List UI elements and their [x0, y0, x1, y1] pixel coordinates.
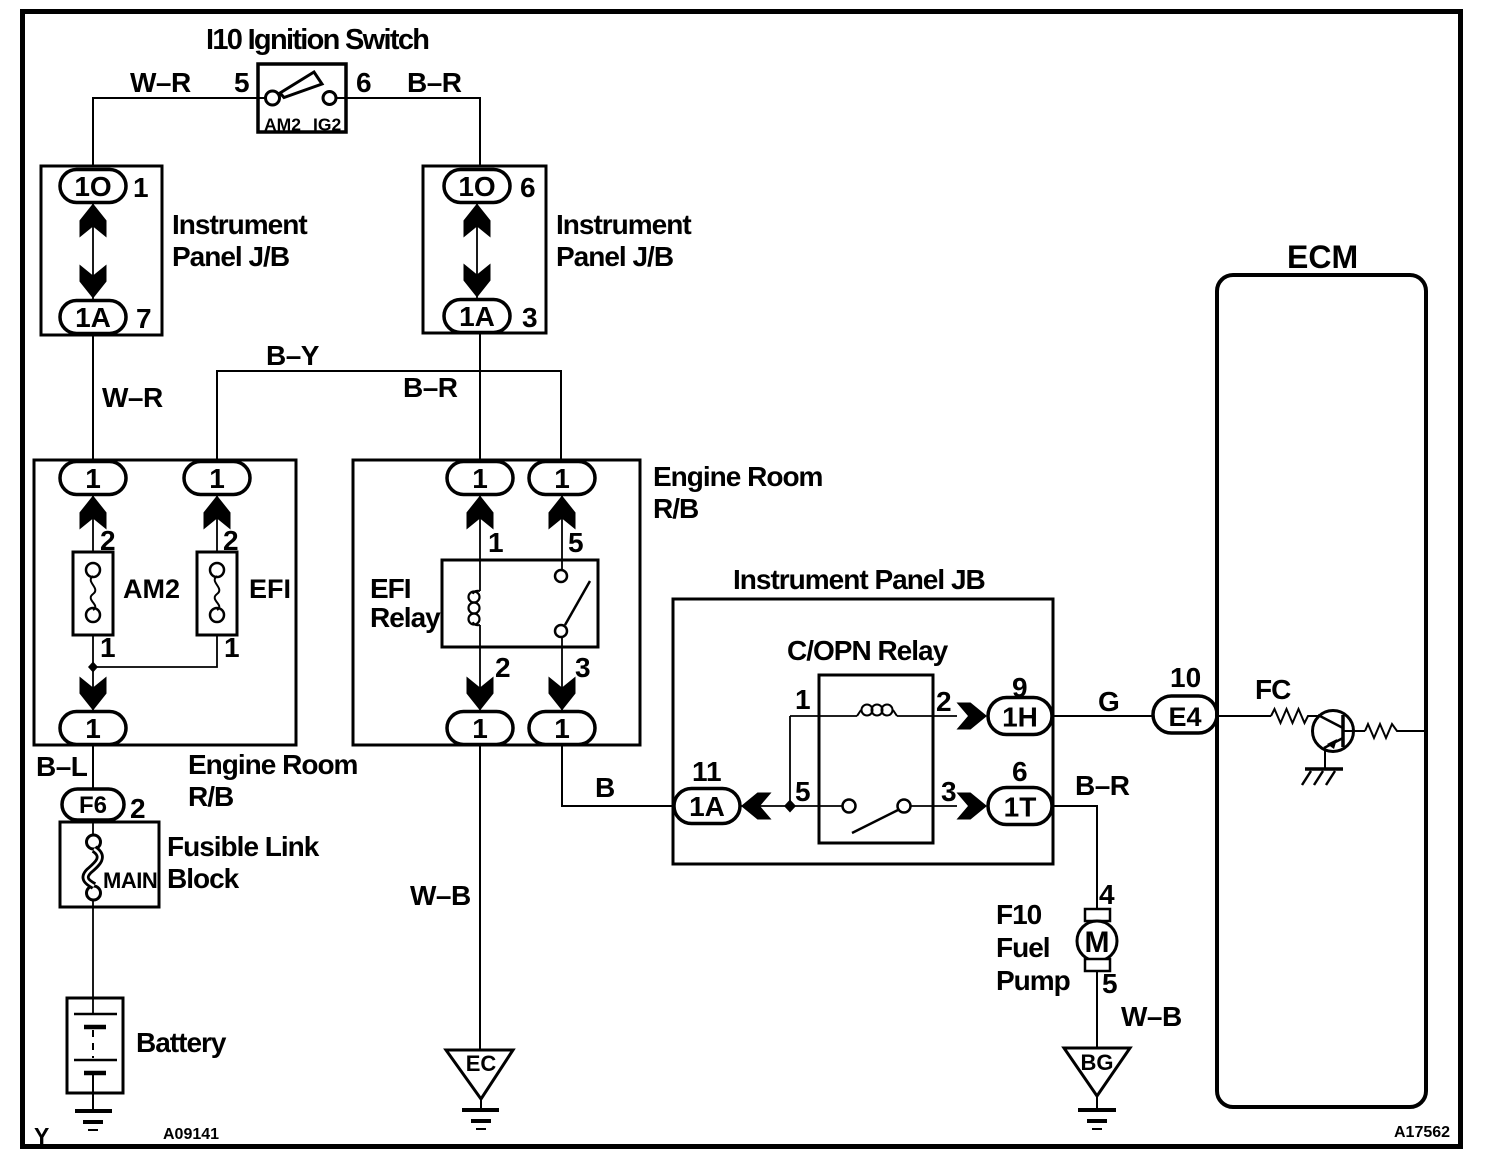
connector E4: [1153, 696, 1217, 733]
right arrow to connector 1H: [957, 703, 988, 730]
wire junction to coil: [789, 716, 791, 806]
svg-text:B–R: B–R: [403, 372, 458, 403]
svg-text:1A: 1A: [75, 302, 111, 333]
up arrow relay coil branch: [467, 496, 494, 530]
svg-text:6: 6: [356, 67, 372, 98]
wire W-R from ignition switch AM2 to left J/B: [93, 98, 266, 166]
svg-text:AM2: AM2: [123, 574, 180, 604]
svg-text:1H: 1H: [1002, 702, 1038, 733]
resistor FC: [1271, 709, 1318, 723]
wire relay coil to connector 2: [479, 647, 481, 713]
svg-text:1A: 1A: [459, 301, 495, 332]
svg-text:3: 3: [575, 652, 591, 683]
svg-text:AM2: AM2: [264, 115, 301, 135]
down arrow to connector 1 bottom: [80, 677, 107, 711]
svg-text:B–R: B–R: [407, 67, 462, 98]
left arrow to connector 1A: [741, 793, 772, 820]
svg-text:Instrument: Instrument: [556, 209, 691, 240]
wire W-B fuel pump to ground BG: [1096, 971, 1098, 1048]
svg-text:1: 1: [85, 713, 101, 744]
svg-text:1: 1: [472, 463, 488, 494]
svg-text:F6: F6: [79, 792, 107, 819]
ignition switch lever: [280, 72, 322, 98]
svg-text:MAIN: MAIN: [103, 868, 157, 893]
svg-text:B–L: B–L: [36, 751, 88, 782]
svg-text:Relay: Relay: [370, 602, 441, 633]
battery box: [67, 998, 123, 1093]
connector 1 top left of right R/B: [447, 462, 513, 495]
svg-text:1: 1: [133, 172, 149, 203]
wire transistor base to resistor: [1343, 730, 1365, 732]
svg-text:2: 2: [130, 793, 146, 824]
wire fuse EFI down and across: [93, 635, 217, 667]
svg-text:M: M: [1085, 926, 1110, 959]
connector 1 bottom left of right R/B: [447, 712, 513, 745]
wire B-Y engine room R/B to EFI relay: [217, 371, 561, 461]
svg-text:B: B: [595, 772, 615, 803]
ground EC triangle: [446, 1050, 513, 1099]
connector 1A instrument panel JB: [674, 789, 740, 824]
svg-text:5: 5: [795, 776, 811, 807]
connector 1 bottom of left R/B: [60, 712, 126, 745]
instrument panel J/B left box: [41, 166, 162, 335]
connector 1 bottom right of right R/B: [529, 712, 595, 745]
wire fuse AM2 down: [92, 635, 94, 713]
wire AM2 branch inside R/B: [92, 494, 94, 552]
fuse AM2 body: [73, 552, 113, 635]
connector F6: [62, 789, 124, 820]
svg-text:7: 7: [136, 303, 152, 334]
svg-text:IG2: IG2: [313, 115, 341, 135]
right arrow to connector 1T: [957, 793, 988, 820]
down arrow left J/B: [80, 265, 107, 299]
wire G from 1H to ECM E4: [1053, 715, 1153, 717]
ground symbol EC: [480, 1099, 482, 1110]
svg-text:6: 6: [520, 172, 536, 203]
svg-text:W–B: W–B: [410, 880, 471, 911]
svg-text:EFI: EFI: [249, 574, 291, 604]
connector 1O right J/B: [444, 170, 510, 203]
connector 1O left J/B: [60, 170, 126, 203]
resistor base pull: [1365, 724, 1426, 738]
svg-text:Panel J/B: Panel J/B: [556, 241, 673, 272]
svg-text:1: 1: [554, 463, 570, 494]
C/OPN relay box: [819, 675, 933, 843]
svg-text:B–Y: B–Y: [266, 340, 320, 371]
C/OPN relay coil: [857, 710, 861, 716]
connector 1A left J/B: [60, 301, 126, 334]
wire E4 to FC resistor: [1217, 715, 1271, 717]
connector 1 top right of right R/B: [529, 462, 595, 495]
wire battery to ground: [92, 1075, 94, 1111]
down arrow relay coil branch: [467, 677, 494, 711]
svg-text:W–R: W–R: [130, 67, 191, 98]
svg-text:R/B: R/B: [653, 493, 698, 524]
svg-text:1: 1: [100, 632, 116, 663]
up arrow left J/B: [80, 204, 107, 238]
svg-text:10: 10: [1170, 662, 1201, 693]
battery cell plates: [74, 1013, 117, 1016]
svg-text:Fusible Link: Fusible Link: [167, 831, 320, 862]
svg-text:Y: Y: [34, 1123, 49, 1149]
svg-text:ECM: ECM: [1287, 239, 1358, 275]
up arrow AM2 branch: [80, 496, 107, 530]
svg-text:1: 1: [488, 527, 504, 558]
down arrow right J/B: [464, 264, 491, 298]
svg-text:1: 1: [224, 632, 240, 663]
fusible link block box: [60, 822, 159, 907]
ground BG triangle: [1064, 1048, 1130, 1096]
svg-text:6: 6: [1012, 756, 1028, 787]
wire relay switch branch top: [561, 494, 563, 570]
wire EFI branch inside R/B: [216, 494, 218, 552]
svg-text:1T: 1T: [1004, 792, 1037, 823]
connector 1T instrument panel JB: [988, 788, 1052, 825]
svg-text:1O: 1O: [74, 171, 111, 202]
svg-text:B–R: B–R: [1075, 770, 1130, 801]
svg-text:EFI: EFI: [370, 573, 411, 604]
wire W-R left J/B to engine room R/B: [92, 335, 94, 461]
svg-text:EC: EC: [466, 1051, 497, 1076]
svg-text:3: 3: [941, 776, 957, 807]
EFI relay coil: [479, 560, 481, 591]
svg-text:5: 5: [568, 527, 584, 558]
svg-text:Fuel: Fuel: [996, 932, 1050, 963]
wire switch row: [740, 805, 843, 807]
wire W-B down to ground EC: [479, 745, 481, 1050]
wire fusible link block to battery: [92, 899, 94, 1014]
EFI relay box: [442, 560, 598, 647]
up arrow EFI branch: [204, 496, 231, 530]
svg-text:C/OPN Relay: C/OPN Relay: [787, 635, 949, 666]
connector 1H instrument panel JB: [988, 698, 1052, 735]
ECM box: [1217, 275, 1426, 1107]
wire B-R right J/B to engine room R/B: [479, 333, 481, 461]
svg-text:Engine Room: Engine Room: [653, 461, 823, 492]
wire B from R/B to instrument panel JB: [562, 745, 674, 806]
engine room R/B right box: [353, 460, 640, 745]
down arrow relay switch branch: [549, 677, 576, 711]
svg-text:11: 11: [692, 756, 722, 787]
instrument panel J/B right box: [423, 166, 546, 333]
connector 1A right J/B: [444, 300, 510, 333]
svg-text:2: 2: [936, 686, 952, 717]
svg-text:FC: FC: [1255, 674, 1291, 705]
svg-text:Instrument Panel JB: Instrument Panel JB: [733, 564, 985, 595]
svg-text:5: 5: [1102, 968, 1118, 999]
ignition switch I10 box: [258, 64, 346, 132]
wire B-R from 1T to fuel pump: [1053, 806, 1097, 909]
svg-text:4: 4: [1099, 879, 1115, 910]
chassis ground ECM: [1305, 767, 1343, 771]
ignition switch terminal IG2 contact: [323, 92, 336, 105]
svg-text:Instrument: Instrument: [172, 209, 307, 240]
wire inside right J/B: [476, 202, 478, 300]
connector 1 above fuse AM2: [60, 462, 126, 495]
fusible link MAIN symbol: [92, 820, 94, 836]
svg-text:E4: E4: [1168, 702, 1201, 732]
wire B-R from ignition switch IG2 to right J/B: [335, 98, 480, 166]
svg-text:1: 1: [472, 713, 488, 744]
svg-text:1: 1: [209, 463, 225, 494]
junction node AM2/EFI: [88, 662, 98, 673]
ground symbol BG: [1096, 1096, 1098, 1110]
svg-text:Block: Block: [167, 863, 240, 894]
svg-text:I10 Ignition Switch: I10 Ignition Switch: [206, 24, 428, 56]
wire coil row: [790, 715, 857, 717]
wire relay switch to connector 3: [561, 637, 563, 713]
transistor Q (fuel pump control): [1313, 711, 1354, 752]
wire inside left J/B: [92, 202, 94, 301]
svg-text:A09141: A09141: [163, 1126, 219, 1143]
engine room R/B left box: [34, 460, 296, 745]
wire transistor emitter to chassis ground: [1324, 749, 1326, 769]
svg-text:1O: 1O: [458, 171, 495, 202]
fuse EFI body: [197, 552, 237, 635]
C/OPN relay switch: [843, 800, 856, 813]
EFI relay switch: [555, 570, 567, 582]
ground symbol battery: [75, 1109, 112, 1113]
ignition switch terminal AM2 contact: [266, 91, 280, 105]
svg-text:1: 1: [554, 713, 570, 744]
svg-text:Battery: Battery: [136, 1027, 227, 1058]
svg-text:1A: 1A: [689, 791, 725, 822]
svg-text:G: G: [1098, 686, 1120, 717]
svg-text:W–B: W–B: [1121, 1001, 1182, 1032]
svg-text:1: 1: [795, 684, 811, 715]
svg-text:BG: BG: [1081, 1050, 1114, 1075]
svg-text:Panel J/B: Panel J/B: [172, 241, 289, 272]
instrument panel JB box: [673, 599, 1053, 864]
fuel pump motor terminal bottom: [1085, 959, 1110, 971]
junction node C/OPN: [784, 800, 796, 813]
wire B-L from R/B to fusible link block: [92, 745, 94, 790]
svg-text:Engine Room: Engine Room: [188, 749, 358, 780]
up arrow relay switch branch: [549, 496, 576, 530]
svg-text:F10: F10: [996, 899, 1042, 930]
svg-text:W–R: W–R: [102, 382, 163, 413]
svg-text:3: 3: [522, 302, 538, 333]
wire relay coil branch top: [479, 494, 481, 560]
svg-text:2: 2: [495, 652, 511, 683]
connector 1 above fuse EFI: [184, 462, 250, 495]
svg-text:9: 9: [1012, 672, 1028, 703]
svg-text:1: 1: [85, 463, 101, 494]
fuel pump motor terminal top: [1085, 909, 1110, 921]
up arrow right J/B: [464, 204, 491, 238]
svg-text:5: 5: [234, 67, 250, 98]
fuel pump motor M: [1077, 921, 1117, 961]
svg-text:Pump: Pump: [996, 965, 1070, 996]
svg-text:A17562: A17562: [1394, 1124, 1450, 1141]
svg-text:R/B: R/B: [188, 781, 233, 812]
